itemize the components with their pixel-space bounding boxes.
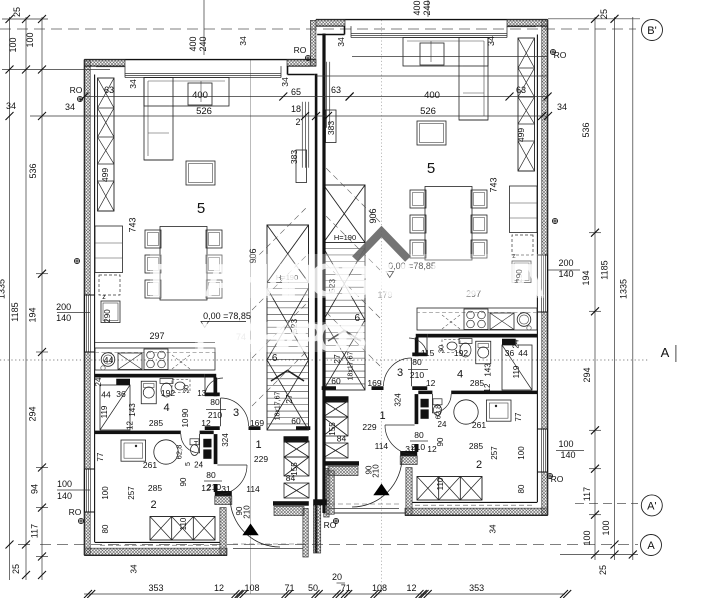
svg-text:4: 4 (163, 402, 169, 414)
dimension lines right (594, 17, 596, 560)
svg-text:229: 229 (254, 454, 268, 464)
svg-text:24: 24 (194, 461, 203, 470)
toilet bath4 (160, 379, 173, 384)
entry recess wall west (220, 508, 226, 556)
axis line bottom to section A (40, 544, 638, 546)
svg-text:63: 63 (104, 85, 114, 95)
svg-text:400: 400 (192, 90, 208, 101)
axis line B top (0, 28, 636, 30)
bath4 washbasin dashed (172, 380, 190, 393)
svg-text:84: 84 (337, 434, 347, 444)
right porch wall hatch (327, 471, 335, 514)
svg-text:90: 90 (436, 437, 445, 446)
svg-text:100: 100 (101, 486, 110, 500)
svg-text:34: 34 (130, 564, 139, 573)
svg-text:499: 499 (100, 168, 110, 182)
svg-text:A: A (661, 345, 670, 360)
dim label box 400 (188, 83, 212, 105)
svg-text:192: 192 (161, 388, 175, 398)
svg-text:25: 25 (599, 9, 609, 19)
svg-text:30: 30 (182, 385, 191, 393)
section marker A circle (641, 535, 662, 556)
svg-text:140: 140 (558, 269, 573, 279)
stair top xbox (267, 225, 309, 283)
short axis to section Aprime (575, 503, 638, 505)
svg-text:34: 34 (6, 101, 16, 111)
svg-text:294: 294 (28, 406, 38, 421)
svg-text:117: 117 (30, 524, 40, 538)
svg-text:114: 114 (375, 441, 389, 451)
svg-text:169: 169 (367, 378, 381, 388)
left wall window kitchen (85, 295, 87, 352)
svg-text:80: 80 (206, 470, 216, 480)
dashed X cabinet (172, 355, 190, 369)
svg-text:44: 44 (518, 348, 528, 358)
svg-text:100: 100 (558, 439, 573, 449)
svg-text:34: 34 (489, 524, 498, 533)
svg-text:B': B' (647, 25, 656, 37)
svg-text:324: 324 (394, 393, 403, 407)
bottom dimension line (84, 593, 565, 595)
svg-text:143: 143 (484, 363, 493, 377)
svg-text:60: 60 (331, 376, 341, 386)
svg-text:194: 194 (28, 307, 38, 322)
wall hall1 to porch (296, 426, 310, 430)
svg-text:25: 25 (12, 7, 22, 17)
wall hall3 south (205, 426, 220, 430)
svg-text:140: 140 (57, 491, 72, 501)
svg-text:RO: RO (69, 507, 82, 517)
sofa L (144, 78, 229, 107)
svg-text:80: 80 (517, 484, 526, 493)
svg-text:44: 44 (104, 355, 114, 365)
svg-text:H=190: H=190 (334, 233, 356, 242)
svg-text:297: 297 (149, 331, 164, 341)
svg-text:34: 34 (280, 77, 290, 87)
svg-text:285: 285 (149, 418, 163, 428)
svg-text:140: 140 (560, 450, 575, 460)
svg-text:12: 12 (427, 444, 437, 454)
svg-text:RO: RO (70, 85, 83, 95)
svg-text:143: 143 (128, 403, 137, 417)
svg-text:115: 115 (421, 348, 435, 358)
svg-text:ПЛАНИРОВ: ПЛАНИРОВ (195, 316, 367, 360)
svg-text:RO: RO (294, 45, 307, 55)
svg-text:261: 261 (143, 460, 157, 470)
svg-text:62,8: 62,8 (175, 445, 184, 460)
svg-text:80: 80 (210, 397, 220, 407)
svg-text:63: 63 (516, 85, 526, 95)
svg-text:240: 240 (198, 36, 208, 51)
svg-text:34: 34 (557, 102, 567, 112)
svg-text:257: 257 (490, 446, 499, 460)
porch east wall hatch (303, 508, 308, 557)
svg-text:536: 536 (28, 163, 38, 178)
left 200/140 leader (57, 312, 90, 314)
svg-text:3: 3 (233, 407, 239, 419)
svg-text:100: 100 (601, 520, 611, 535)
svg-text:71: 71 (284, 583, 294, 593)
tall counter column (95, 226, 123, 273)
party wall right leaf (322, 34, 325, 514)
svg-text:13: 13 (197, 389, 206, 398)
svg-text:261: 261 (472, 420, 486, 430)
bath2 small wc (190, 439, 199, 445)
svg-text:285: 285 (469, 441, 483, 451)
entry door arc (230, 497, 280, 547)
svg-text:RO: RO (324, 520, 337, 530)
svg-text:94: 94 (30, 484, 40, 494)
bath2 black boxes (203, 439, 211, 448)
svg-text:44: 44 (101, 390, 111, 400)
door bath4 arc (204, 378, 206, 397)
svg-text:100: 100 (517, 446, 526, 460)
svg-text:18: 18 (291, 104, 301, 114)
svg-text:z: z (102, 294, 106, 301)
bottom exterior wall (84, 554, 227, 556)
coffee table (186, 161, 215, 185)
svg-text:229: 229 (362, 422, 376, 432)
svg-text:2: 2 (295, 117, 300, 127)
svg-text:62,8: 62,8 (434, 405, 443, 420)
stair shaft duct (296, 150, 307, 183)
svg-text:110: 110 (179, 517, 188, 530)
svg-text:119: 119 (100, 405, 109, 418)
party wall top jog hatch (310, 20, 316, 66)
watermark white text band 2 (195, 322, 367, 352)
dim line top right window (352, 56, 548, 58)
svg-text:536: 536 (581, 122, 591, 137)
svg-text:499: 499 (516, 128, 526, 142)
svg-text:77: 77 (514, 412, 523, 421)
wardrobe column (98, 78, 115, 211)
svg-text:12: 12 (426, 378, 436, 388)
stair treads (267, 288, 309, 290)
top wall window band (125, 73, 281, 75)
party wall tie (313, 499, 327, 505)
svg-text:257: 257 (127, 486, 136, 500)
wall step hall3 (205, 374, 217, 378)
svg-text:12: 12 (406, 583, 416, 593)
svg-text:400: 400 (412, 0, 422, 15)
svg-text:31: 31 (405, 444, 415, 454)
svg-text:906: 906 (368, 208, 378, 223)
svg-text:5: 5 (185, 462, 192, 466)
svg-text:ПЛАНИРОВКА ДОМА: ПЛАНИРОВКА ДОМА (150, 254, 545, 306)
dim line top left window (84, 96, 548, 98)
svg-text:12: 12 (483, 383, 492, 392)
svg-text:140: 140 (56, 313, 71, 323)
svg-text:24: 24 (438, 420, 447, 429)
axis line A middle dotted (0, 359, 648, 361)
svg-text:294: 294 (582, 367, 592, 382)
svg-text:169: 169 (250, 418, 264, 428)
svg-text:383: 383 (289, 150, 299, 164)
svg-text:18x17,67: 18x17,67 (275, 391, 282, 420)
wall kitchen/bath (95, 374, 205, 378)
watermark roof logo (355, 232, 408, 260)
svg-text:A': A' (647, 500, 656, 512)
svg-text:108: 108 (244, 583, 259, 593)
svg-text:A: A (647, 540, 655, 552)
svg-text:10: 10 (181, 418, 190, 427)
svg-text:90: 90 (179, 477, 188, 486)
section marker A prime circle (641, 495, 662, 516)
section marker B prime (642, 20, 663, 41)
dining table (160, 227, 207, 301)
svg-text:324: 324 (221, 433, 230, 447)
svg-text:30: 30 (437, 345, 446, 353)
svg-text:526: 526 (420, 106, 436, 117)
svg-text:240: 240 (422, 0, 432, 15)
svg-text:100: 100 (8, 37, 18, 52)
svg-text:1185: 1185 (600, 260, 610, 279)
svg-text:210: 210 (243, 505, 252, 519)
svg-text:3: 3 (397, 367, 403, 379)
svg-text:36: 36 (116, 389, 126, 399)
round sink (101, 353, 115, 367)
svg-text:27: 27 (284, 394, 294, 404)
svg-text:353: 353 (469, 583, 484, 593)
svg-text:400: 400 (188, 36, 198, 51)
svg-text:110: 110 (436, 477, 445, 490)
dishwasher X (118, 353, 142, 370)
party wall bottom hatch (314, 505, 321, 553)
bath2 shower circle (154, 440, 178, 464)
wall bath2/room2 (95, 431, 181, 435)
svg-text:T: T (194, 441, 199, 448)
top exterior wall (84, 59, 316, 61)
svg-text:1335: 1335 (0, 279, 7, 299)
door hall1 to room2 (217, 464, 247, 466)
fridge (101, 301, 120, 323)
svg-text:34: 34 (65, 102, 75, 112)
svg-text:526: 526 (196, 106, 212, 117)
porch edge (233, 548, 303, 550)
svg-text:5: 5 (197, 200, 205, 217)
svg-text:155: 155 (328, 422, 337, 436)
left exterior wall (83, 60, 85, 556)
top wall inner corner step (287, 66, 289, 74)
svg-text:1185: 1185 (10, 302, 20, 321)
svg-text:285: 285 (148, 483, 162, 493)
svg-text:743: 743 (489, 177, 499, 192)
top dim leaders (203, 0, 205, 55)
svg-text:108: 108 (372, 583, 387, 593)
hob (144, 349, 168, 370)
svg-text:90: 90 (181, 408, 190, 417)
svg-text:210: 210 (410, 370, 424, 380)
svg-text:100: 100 (57, 479, 72, 489)
svg-text:80: 80 (414, 430, 424, 440)
shaft window lines (301, 102, 303, 168)
svg-text:192: 192 (454, 348, 468, 358)
svg-text:80: 80 (412, 357, 422, 367)
dim hlines left (2, 18, 48, 20)
svg-text:119: 119 (512, 365, 521, 378)
svg-text:34: 34 (486, 36, 496, 46)
left 100/140 leader (57, 489, 90, 491)
bath4 black unit (116, 379, 130, 385)
svg-text:100: 100 (582, 530, 592, 545)
bath2 washbasin (121, 440, 146, 461)
right unit (mirrored) (316, 20, 548, 517)
dim hlines right (548, 18, 640, 20)
svg-text:63: 63 (331, 85, 341, 95)
door bath2 (199, 434, 201, 453)
vertical guide left unit (250, 60, 252, 594)
wall hall1 east under stairs (284, 436, 309, 442)
watermark white text band 1 (150, 254, 545, 298)
svg-text:25: 25 (11, 564, 21, 574)
svg-text:24: 24 (94, 377, 103, 386)
svg-text:2: 2 (476, 459, 482, 471)
svg-text:194: 194 (581, 270, 591, 285)
svg-text:1: 1 (380, 410, 386, 422)
svg-text:5: 5 (427, 160, 435, 177)
svg-text:1: 1 (255, 439, 261, 451)
stair cross braces (267, 288, 309, 360)
right porch slab edge (334, 512, 406, 514)
washing machine (141, 381, 156, 404)
bottom leader 20 (337, 582, 346, 584)
room2 wardrobe (150, 517, 215, 541)
svg-text:60: 60 (291, 416, 301, 426)
svg-text:65: 65 (291, 87, 301, 97)
svg-text:2: 2 (151, 499, 157, 511)
svg-text:71: 71 (341, 583, 351, 593)
svg-text:50: 50 (308, 583, 318, 593)
svg-text:100: 100 (25, 32, 35, 47)
stair outline (267, 225, 309, 430)
door hall3 (220, 398, 222, 426)
svg-text:383: 383 (326, 121, 336, 135)
wall room2/hall1 vertical (214, 434, 218, 464)
roof slope dashed lines (252, 206, 308, 262)
svg-text:34: 34 (128, 79, 138, 89)
svg-text:155: 155 (290, 462, 299, 476)
svg-text:34: 34 (238, 36, 248, 46)
svg-text:114: 114 (246, 484, 260, 494)
svg-text:210: 210 (372, 464, 381, 478)
svg-text:290: 290 (103, 309, 112, 323)
left wall window room2 (85, 469, 87, 512)
svg-text:31: 31 (221, 484, 231, 494)
svg-text:4: 4 (457, 369, 463, 381)
svg-text:77: 77 (96, 452, 105, 461)
svg-text:117: 117 (582, 487, 592, 501)
kitchen counter along wall (95, 348, 215, 370)
svg-text:12: 12 (201, 418, 211, 428)
hall1 closet (284, 441, 309, 457)
svg-text:1335: 1335 (618, 279, 628, 299)
svg-text:200: 200 (56, 302, 71, 312)
svg-text:12: 12 (214, 583, 224, 593)
svg-text:34: 34 (336, 37, 346, 47)
svg-text:20: 20 (332, 572, 342, 582)
svg-text:12: 12 (126, 421, 135, 430)
stair up arrow (271, 371, 304, 382)
svg-text:36: 36 (505, 348, 515, 358)
entry wall segments (215, 491, 232, 496)
svg-text:12: 12 (201, 483, 211, 493)
svg-text:400: 400 (424, 90, 440, 101)
bath4 closet (100, 385, 130, 430)
svg-text:25: 25 (598, 565, 608, 575)
party wall left leaf (315, 74, 318, 553)
dimension lines left (9, 17, 11, 580)
entrance triangle (242, 524, 258, 536)
svg-text:200: 200 (558, 258, 573, 268)
chairs (145, 230, 161, 248)
svg-text:24: 24 (512, 339, 521, 348)
svg-text:80: 80 (101, 524, 110, 533)
vertical guide right unit (381, 20, 383, 594)
svg-text:353: 353 (148, 583, 163, 593)
svg-text:743: 743 (128, 217, 138, 232)
